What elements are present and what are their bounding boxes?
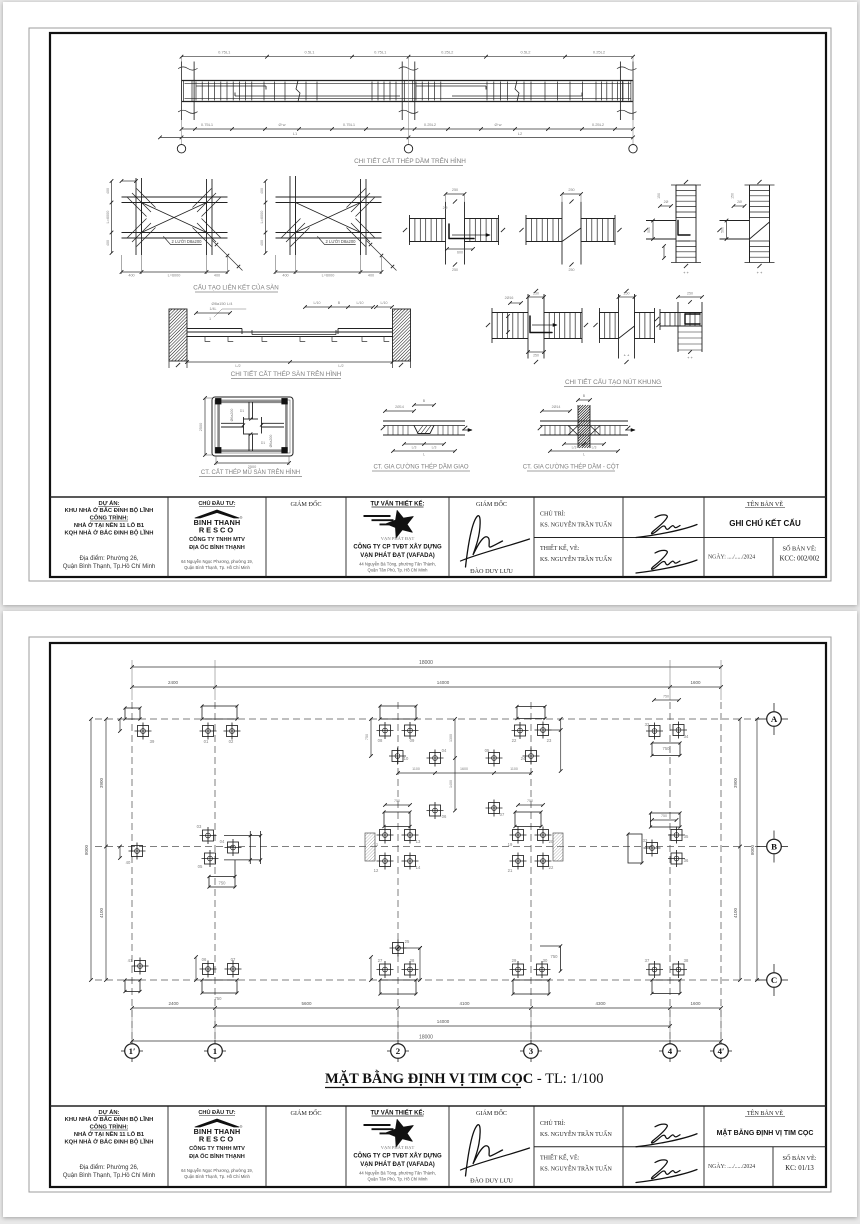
svg-text:Ø6a200: Ø6a200 [269, 435, 273, 448]
svg-text:RESCO: RESCO [199, 526, 235, 535]
svg-text:NGÀY: ..../...../2024: NGÀY: ..../...../2024 [708, 553, 755, 561]
svg-text:MẶT BẰNG ĐỊNH VỊ TIM CỌC -: MẶT BẰNG ĐỊNH VỊ TIM CỌC - TL: 1/100 [325, 1070, 603, 1087]
svg-text:2Ø14: 2Ø14 [395, 405, 404, 409]
svg-text:B: B [423, 399, 426, 403]
svg-text:®: ® [240, 516, 243, 520]
svg-text:750: 750 [219, 881, 227, 886]
svg-text:38: 38 [684, 958, 689, 963]
svg-text:VẠN PHÁT ĐẠT: VẠN PHÁT ĐẠT [381, 536, 415, 541]
svg-text:06: 06 [202, 957, 207, 962]
svg-text:33: 33 [643, 838, 648, 843]
svg-text:VẠN PHÁT ĐẠT (VAFADA): VẠN PHÁT ĐẠT (VAFADA) [360, 552, 435, 559]
svg-text:41: 41 [128, 958, 133, 963]
svg-text:CÔNG TRÌNH:: CÔNG TRÌNH: [90, 1123, 129, 1131]
svg-text:07: 07 [500, 812, 505, 817]
svg-text:Ø w: Ø w [278, 122, 285, 127]
svg-text:8000: 8000 [84, 844, 89, 855]
svg-text:20: 20 [549, 839, 554, 844]
svg-text:750: 750 [663, 695, 669, 699]
svg-text:CHI TIẾT CẮT THÉP DẦM TRÊN HÌN: CHI TIẾT CẮT THÉP DẦM TRÊN HÌNH [354, 155, 466, 165]
svg-text:CHỦ ĐẦU TƯ:: CHỦ ĐẦU TƯ: [198, 1109, 235, 1116]
svg-text:L=6000: L=6000 [168, 274, 181, 278]
svg-text:0.25L2: 0.25L2 [592, 122, 605, 127]
svg-text:4: 4 [668, 1046, 673, 1056]
svg-text:30: 30 [543, 958, 548, 963]
svg-text:KS. NGUYỄN TRẦN TUẤN: KS. NGUYỄN TRẦN TUẤN [540, 521, 612, 529]
svg-text:+ +: + + [624, 353, 630, 358]
svg-text:CÔNG TRÌNH:: CÔNG TRÌNH: [90, 514, 129, 522]
svg-text:L/3: L/3 [432, 446, 437, 450]
svg-text:L/10: L/10 [314, 301, 321, 305]
svg-text:A: A [771, 714, 778, 724]
svg-text:02: 02 [229, 739, 234, 744]
svg-text:NHÀ Ở TẠI NỀN 11 LÔ B1: NHÀ Ở TẠI NỀN 11 LÔ B1 [74, 1130, 145, 1138]
svg-text:05: 05 [485, 748, 490, 753]
svg-text:CHỦ TRÌ:: CHỦ TRÌ: [540, 510, 566, 518]
svg-text:+ +: + + [683, 270, 689, 275]
svg-text:1′: 1′ [129, 1046, 136, 1056]
svg-text:0.75L1: 0.75L1 [343, 122, 356, 127]
svg-text:KS. NGUYỄN TRẦN TUẤN: KS. NGUYỄN TRẦN TUẤN [540, 1130, 612, 1138]
svg-text:L: L [583, 453, 585, 457]
svg-text:TÊN BẢN VẼ: TÊN BẢN VẼ [747, 500, 784, 508]
svg-text:2: 2 [396, 1046, 401, 1056]
svg-text:Quận Bình Thạnh, Tp. Hồ Chí Mi: Quận Bình Thạnh, Tp. Hồ Chí Minh [184, 565, 250, 570]
svg-text:CT. CẮT THÉP MŨ SÀN TRÊN HÌNH: CT. CẮT THÉP MŨ SÀN TRÊN HÌNH [201, 468, 300, 476]
svg-text:B: B [338, 301, 341, 305]
svg-text:150: 150 [731, 193, 735, 199]
svg-text:1100: 1100 [412, 767, 420, 771]
svg-text:CÔNG TY TNHH MTV: CÔNG TY TNHH MTV [189, 1144, 245, 1152]
svg-text:13: 13 [416, 839, 421, 844]
svg-text:34: 34 [684, 734, 689, 739]
svg-text:06: 06 [442, 814, 447, 819]
svg-text:KQH NHÀ Ở BẮC ĐINH BỘ LĨNH: KQH NHÀ Ở BẮC ĐINH BỘ LĨNH [65, 1138, 154, 1146]
svg-text:DỰ ÁN:: DỰ ÁN: [99, 500, 120, 507]
svg-text:500: 500 [721, 227, 725, 233]
svg-text:+ +: + + [687, 355, 693, 360]
svg-text:3900: 3900 [99, 777, 104, 788]
svg-text:600: 600 [457, 251, 463, 255]
svg-text:2Ø: 2Ø [737, 200, 742, 204]
svg-text:18000: 18000 [419, 1035, 433, 1041]
svg-text:1100: 1100 [510, 767, 518, 771]
svg-text:Địa điểm: Phường 26,: Địa điểm: Phường 26, [80, 1164, 139, 1171]
svg-text:750: 750 [365, 734, 369, 740]
svg-text:KC: 01/13: KC: 01/13 [785, 1165, 814, 1172]
svg-text:1/4L: 1/4L [210, 307, 217, 311]
svg-text:Quận Tân Phú, Tp. Hồ Chí Minh: Quận Tân Phú, Tp. Hồ Chí Minh [368, 1177, 429, 1182]
svg-text:400: 400 [368, 274, 374, 278]
svg-text:22: 22 [549, 865, 554, 870]
svg-text:1: 1 [213, 1046, 217, 1056]
svg-text:CT. GIA CƯỜNG THÉP DẦM - CỘT: CT. GIA CƯỜNG THÉP DẦM - CỘT [523, 464, 620, 471]
svg-text:MẶT BẰNG ĐỊNH VỊ TIM CỌC: MẶT BẰNG ĐỊNH VỊ TIM CỌC [717, 1128, 814, 1137]
svg-text:B: B [771, 842, 777, 852]
svg-text:KQH NHÀ Ở BẮC ĐINH BỘ LĨNH: KQH NHÀ Ở BẮC ĐINH BỘ LĨNH [65, 529, 154, 537]
svg-text:500: 500 [647, 227, 651, 233]
svg-text:22: 22 [512, 738, 517, 743]
svg-text:CÔNG TY CP TVĐT XÂY DỰNG: CÔNG TY CP TVĐT XÂY DỰNG [353, 1152, 442, 1160]
svg-text:750: 750 [663, 746, 671, 751]
svg-text:C: C [771, 975, 777, 985]
svg-text:4300: 4300 [595, 1001, 606, 1006]
svg-text:400: 400 [128, 274, 134, 278]
svg-text:250: 250 [568, 188, 574, 192]
svg-text:GIÁM ĐỐC: GIÁM ĐỐC [290, 1109, 321, 1117]
svg-text:2Ø: 2Ø [664, 200, 669, 204]
svg-text:L=6000: L=6000 [106, 211, 110, 224]
svg-text:19: 19 [508, 842, 513, 847]
svg-text:0.75L1: 0.75L1 [374, 50, 387, 55]
svg-text:09: 09 [410, 738, 415, 743]
svg-text:0.75L1: 0.75L1 [201, 122, 214, 127]
svg-text:D1: D1 [240, 409, 244, 413]
svg-text:L/2: L/2 [235, 364, 240, 368]
svg-text:CHỦ TRÌ:: CHỦ TRÌ: [540, 1119, 566, 1127]
svg-text:L=6000: L=6000 [322, 274, 335, 278]
svg-text:250: 250 [624, 292, 630, 296]
svg-text:14000: 14000 [437, 1019, 450, 1024]
svg-text:29: 29 [512, 958, 517, 963]
svg-text:Quận Bình Thạnh, Tp.Hồ Chí Min: Quận Bình Thạnh, Tp.Hồ Chí Minh [63, 1173, 156, 1179]
svg-text:Ø6a200: Ø6a200 [230, 409, 234, 422]
svg-text:400: 400 [106, 240, 110, 246]
svg-text:KS. NGUYỄN TRẦN TUẤN: KS. NGUYỄN TRẦN TUẤN [540, 555, 612, 563]
svg-text:250: 250 [687, 292, 693, 296]
svg-text:36: 36 [684, 858, 689, 863]
svg-text:400: 400 [106, 188, 110, 194]
svg-text:2 LƯỚI D8a200: 2 LƯỚI D8a200 [326, 239, 357, 244]
svg-text:L/3: L/3 [572, 446, 577, 450]
svg-text:Ø8a150 L/4: Ø8a150 L/4 [212, 301, 234, 306]
svg-text:0.25L2: 0.25L2 [424, 122, 437, 127]
svg-text:750: 750 [527, 799, 533, 803]
svg-text:SỐ BẢN VẼ:: SỐ BẢN VẼ: [783, 1154, 817, 1162]
svg-text:32: 32 [645, 722, 650, 727]
svg-text:14: 14 [416, 865, 421, 870]
svg-text:GIÁM ĐỐC: GIÁM ĐỐC [476, 1109, 507, 1117]
svg-text:400: 400 [282, 274, 288, 278]
svg-text:0.25L2: 0.25L2 [441, 50, 454, 55]
svg-text:24: 24 [521, 756, 526, 761]
svg-text:8000: 8000 [750, 844, 755, 855]
svg-text:1300: 1300 [449, 734, 453, 742]
svg-text:10: 10 [404, 756, 409, 761]
svg-text:01: 01 [204, 739, 209, 744]
svg-text:0.75L1: 0.75L1 [218, 50, 231, 55]
svg-text:RESCO: RESCO [199, 1135, 235, 1144]
svg-text:12: 12 [374, 868, 379, 873]
svg-text:250: 250 [452, 188, 458, 192]
svg-text:Ø w: Ø w [494, 122, 501, 127]
svg-text:CÔNG TY CP TVĐT XÂY DỰNG: CÔNG TY CP TVĐT XÂY DỰNG [353, 543, 442, 551]
svg-text:04: 04 [220, 839, 225, 844]
svg-text:L=6000: L=6000 [260, 211, 264, 224]
svg-text:23: 23 [547, 738, 552, 743]
svg-text:40: 40 [126, 860, 131, 865]
svg-text:GIÁM ĐỐC: GIÁM ĐỐC [290, 500, 321, 508]
svg-text:D1: D1 [261, 441, 265, 445]
svg-text:KCC: 002/002: KCC: 002/002 [780, 556, 820, 563]
svg-text:1600: 1600 [460, 767, 468, 771]
svg-text:Quận Bình Thạnh, Tp.Hồ Chí Min: Quận Bình Thạnh, Tp.Hồ Chí Minh [63, 564, 156, 570]
svg-text:250: 250 [452, 268, 458, 272]
svg-text:14000: 14000 [437, 680, 450, 685]
svg-text:THIẾT KẾ, VẼ:: THIẾT KẾ, VẼ: [540, 544, 580, 552]
svg-text:21: 21 [508, 868, 513, 873]
svg-text:11: 11 [374, 842, 379, 847]
svg-text:27: 27 [378, 958, 383, 963]
svg-text:ĐỊA ỐC BÌNH THẠNH: ĐỊA ỐC BÌNH THẠNH [189, 543, 245, 551]
svg-text:35: 35 [684, 834, 689, 839]
svg-text:L2: L2 [518, 131, 523, 136]
svg-text:250: 250 [533, 354, 539, 358]
svg-text:400: 400 [214, 274, 220, 278]
svg-text:L/3: L/3 [592, 446, 597, 450]
svg-text:ĐÀO DUY LƯU: ĐÀO DUY LƯU [470, 567, 513, 575]
svg-text:CÔNG TY TNHH MTV: CÔNG TY TNHH MTV [189, 535, 245, 543]
svg-text:1600: 1600 [690, 680, 701, 685]
svg-text:64 Nguyễn Ngọc Phương, phường: 64 Nguyễn Ngọc Phương, phường 19, [181, 559, 253, 564]
svg-text:CHI TIẾT CẮT THÉP SÀN TRÊN HÌN: CHI TIẾT CẮT THÉP SÀN TRÊN HÌNH [231, 368, 342, 378]
svg-text:L1: L1 [293, 131, 298, 136]
svg-text:07: 07 [231, 957, 236, 962]
svg-text:0.5L2: 0.5L2 [520, 50, 531, 55]
svg-text:2500: 2500 [248, 465, 256, 469]
svg-text:3900: 3900 [733, 777, 738, 788]
svg-text:2400: 2400 [168, 1001, 179, 1006]
svg-text:1600: 1600 [690, 1001, 701, 1006]
svg-text:39: 39 [150, 739, 155, 744]
svg-text:ĐỊA ỐC BÌNH THẠNH: ĐỊA ỐC BÌNH THẠNH [189, 1152, 245, 1160]
svg-text:750: 750 [661, 814, 667, 818]
svg-text:4100: 4100 [99, 907, 104, 918]
svg-text:0.5L1: 0.5L1 [304, 50, 315, 55]
svg-text:2400: 2400 [168, 680, 179, 685]
svg-text:4′: 4′ [718, 1046, 725, 1056]
svg-text:400: 400 [260, 188, 264, 194]
svg-text:VẠN PHÁT ĐẠT: VẠN PHÁT ĐẠT [381, 1145, 415, 1150]
svg-text:THIẾT KẾ, VẼ:: THIẾT KẾ, VẼ: [540, 1154, 580, 1162]
svg-text:04: 04 [442, 748, 447, 753]
svg-text:4100: 4100 [459, 1001, 470, 1006]
svg-text:Quận Bình Thạnh, Tp. Hồ Chí Mi: Quận Bình Thạnh, Tp. Hồ Chí Minh [184, 1174, 250, 1179]
svg-text:25: 25 [405, 939, 410, 944]
svg-text:4100: 4100 [733, 907, 738, 918]
svg-text:1: 1 [209, 317, 211, 321]
svg-text:DỰ ÁN:: DỰ ÁN: [99, 1109, 120, 1116]
svg-text:250: 250 [569, 268, 575, 272]
svg-text:B: B [583, 394, 586, 398]
svg-text:5600: 5600 [301, 1001, 312, 1006]
svg-text:TƯ VẤN THIẾT KẾ:: TƯ VẤN THIẾT KẾ: [371, 1110, 425, 1117]
svg-text:2500: 2500 [199, 423, 203, 431]
svg-text:1400: 1400 [449, 780, 453, 788]
svg-text:L: L [423, 453, 425, 457]
svg-text:2Ø16: 2Ø16 [505, 296, 514, 300]
svg-text:44 Nguyễn Bá Tòng, phường Tân: 44 Nguyễn Bá Tòng, phường Tân Thành, [359, 562, 436, 567]
svg-text:L/3: L/3 [412, 446, 417, 450]
svg-text:CHI TIẾT CẤU TẠO NÚT KHUNG: CHI TIẾT CẤU TẠO NÚT KHUNG [565, 376, 661, 386]
svg-text:KS. NGUYỄN TRẦN TUẤN: KS. NGUYỄN TRẦN TUẤN [540, 1165, 612, 1173]
svg-text:08: 08 [378, 738, 383, 743]
svg-text:28: 28 [410, 958, 415, 963]
svg-text:150: 150 [657, 193, 661, 199]
svg-text:NHÀ Ở TẠI NỀN 11 LÔ B1: NHÀ Ở TẠI NỀN 11 LÔ B1 [74, 521, 145, 529]
svg-text:CHỦ ĐẦU TƯ:: CHỦ ĐẦU TƯ: [198, 500, 235, 507]
svg-text:64 Nguyễn Ngọc Phương, phường: 64 Nguyễn Ngọc Phương, phường 19, [181, 1168, 253, 1173]
svg-text:18000: 18000 [419, 660, 433, 666]
svg-text:2Ø14: 2Ø14 [552, 405, 561, 409]
svg-text:KHU NHÀ Ở BẮC ĐINH BỘ LĨNH: KHU NHÀ Ở BẮC ĐINH BỘ LĨNH [65, 506, 154, 514]
svg-text:SỐ BẢN VẼ:: SỐ BẢN VẼ: [783, 545, 817, 553]
svg-text:+ +: + + [757, 270, 763, 275]
svg-text:TƯ VẤN THIẾT KẾ:: TƯ VẤN THIẾT KẾ: [371, 501, 425, 508]
svg-text:L/10: L/10 [357, 301, 364, 305]
svg-text:GIÁM ĐỐC: GIÁM ĐỐC [476, 500, 507, 508]
svg-text:2Ø: 2Ø [443, 206, 448, 210]
svg-text:750: 750 [551, 954, 559, 959]
svg-text:05: 05 [198, 864, 203, 869]
svg-text:2 LƯỚI D8a200: 2 LƯỚI D8a200 [172, 239, 203, 244]
svg-text:250: 250 [533, 292, 539, 296]
svg-text:ĐÀO DUY LƯU: ĐÀO DUY LƯU [470, 1177, 513, 1185]
svg-text:44 Nguyễn Bá Tòng, phường Tân: 44 Nguyễn Bá Tòng, phường Tân Thành, [359, 1171, 436, 1176]
svg-text:L/10: L/10 [381, 301, 388, 305]
svg-text:Địa điểm: Phường 26,: Địa điểm: Phường 26, [80, 555, 139, 562]
svg-text:L/2: L/2 [338, 364, 343, 368]
svg-text:®: ® [240, 1125, 243, 1129]
svg-text:03: 03 [197, 824, 202, 829]
svg-text:Quận Tân Phú, Tp. Hồ Chí Minh: Quận Tân Phú, Tp. Hồ Chí Minh [368, 568, 429, 573]
svg-text:TÊN BẢN VẼ: TÊN BẢN VẼ [747, 1109, 784, 1117]
svg-text:0.25L2: 0.25L2 [593, 50, 606, 55]
svg-text:NGÀY: ..../...../2024: NGÀY: ..../...../2024 [708, 1162, 755, 1170]
svg-text:37: 37 [645, 958, 650, 963]
svg-text:3: 3 [529, 1046, 534, 1056]
svg-text:GHI CHÚ KẾT CẤU: GHI CHÚ KẾT CẤU [729, 518, 801, 528]
svg-text:750: 750 [215, 996, 223, 1001]
svg-text:CẤU TẠO LIÊN KẾT CỦA SÀN: CẤU TẠO LIÊN KẾT CỦA SÀN [193, 284, 278, 292]
svg-text:VẠN PHÁT ĐẠT (VAFADA): VẠN PHÁT ĐẠT (VAFADA) [360, 1161, 435, 1168]
svg-text:KHU NHÀ Ở BẮC ĐINH BỘ LĨNH: KHU NHÀ Ở BẮC ĐINH BỘ LĨNH [65, 1115, 154, 1123]
svg-text:400: 400 [260, 240, 264, 246]
svg-text:CT. GIA CƯỜNG THÉP DẦM GIAO: CT. GIA CƯỜNG THÉP DẦM GIAO [373, 464, 468, 471]
svg-text:750: 750 [394, 799, 400, 803]
